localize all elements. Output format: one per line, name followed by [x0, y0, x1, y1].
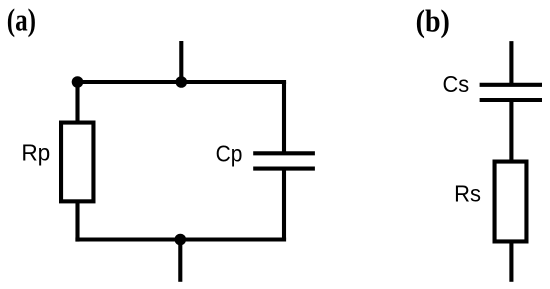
- wire middle segment of circuit b: [509, 99, 513, 163]
- wire right branch lower segment: [282, 167, 286, 240]
- wire top terminal stub of circuit b: [509, 41, 513, 86]
- wire right branch upper segment: [282, 82, 286, 155]
- node junction dot at bottom terminal: [175, 234, 187, 246]
- svg-text:Rs: Rs: [454, 181, 481, 207]
- node junction dot at top terminal: [176, 76, 188, 88]
- wire top horizontal of circuit a: [75, 80, 286, 84]
- resistor Rs: [495, 162, 527, 242]
- wire bottom horizontal of circuit a: [75, 237, 286, 241]
- wire bottom terminal stub of circuit b: [509, 242, 513, 282]
- svg-text:Cp: Cp: [216, 140, 243, 166]
- wire bottom terminal stub of circuit a: [178, 240, 182, 282]
- capacitor Cp: [253, 153, 315, 168]
- wire left branch upper segment: [75, 82, 79, 124]
- svg-text:(a): (a): [7, 3, 36, 39]
- svg-text:(b): (b): [416, 3, 450, 39]
- capacitor Cs: [480, 85, 542, 100]
- wire left branch lower segment: [75, 201, 79, 242]
- svg-text:Cs: Cs: [443, 71, 470, 97]
- node junction dot top-left corner: [72, 76, 84, 88]
- resistor Rp: [61, 123, 93, 202]
- wire top terminal stub of circuit a: [179, 41, 183, 84]
- svg-text:Rp: Rp: [21, 139, 50, 165]
